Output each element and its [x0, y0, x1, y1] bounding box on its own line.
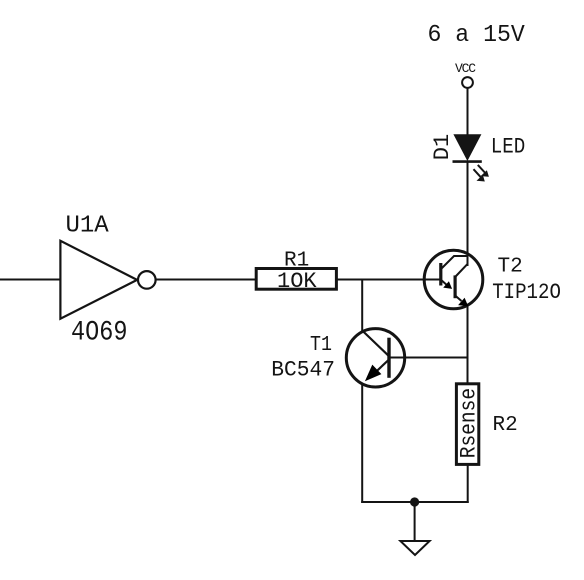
svg-text:T2: T2: [498, 256, 523, 279]
svg-text:Rsense: Rsense: [458, 388, 482, 458]
svg-text:VCC: VCC: [455, 61, 476, 76]
svg-text:BC547: BC547: [271, 358, 335, 382]
svg-text:1OK: 1OK: [277, 269, 317, 294]
svg-text:4O69: 4O69: [71, 316, 127, 348]
svg-text:6 a 15V: 6 a 15V: [428, 22, 526, 49]
svg-text:T1: T1: [310, 333, 332, 356]
svg-text:D1: D1: [430, 134, 455, 160]
svg-text:LED: LED: [491, 135, 525, 160]
svg-text:R2: R2: [493, 414, 518, 437]
svg-text:TIP12O: TIP12O: [492, 281, 561, 306]
svg-text:U1A: U1A: [66, 213, 110, 240]
